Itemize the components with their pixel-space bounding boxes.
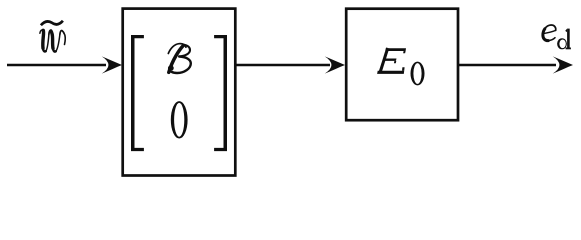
wire: arrow from block 1 to block 2 — [235, 64, 330, 67]
node e_d: output label letter e — [543, 25, 556, 41]
symbol script-B: top matrix entry — [168, 44, 191, 73]
right bracket of matrix — [214, 35, 227, 151]
wire: output signal line — [458, 64, 556, 67]
node w~: input label letter w — [40, 30, 65, 52]
node w~: input label tilde accent — [41, 21, 63, 26]
block 1 [B;0]: box outline — [123, 9, 236, 176]
label E0: subscript 0 — [411, 62, 425, 86]
digit 0: bottom matrix entry — [171, 101, 188, 138]
block 2 E0: box outline — [346, 9, 458, 121]
left bracket of matrix — [131, 35, 144, 151]
node e_d: output label subscript d — [557, 29, 571, 50]
arrowhead into block 2 — [325, 56, 345, 73]
arrowhead at output — [553, 56, 573, 73]
label E0: letter E — [377, 47, 406, 73]
arrowhead into block 1 — [102, 56, 122, 73]
wire: input signal line — [7, 64, 106, 67]
